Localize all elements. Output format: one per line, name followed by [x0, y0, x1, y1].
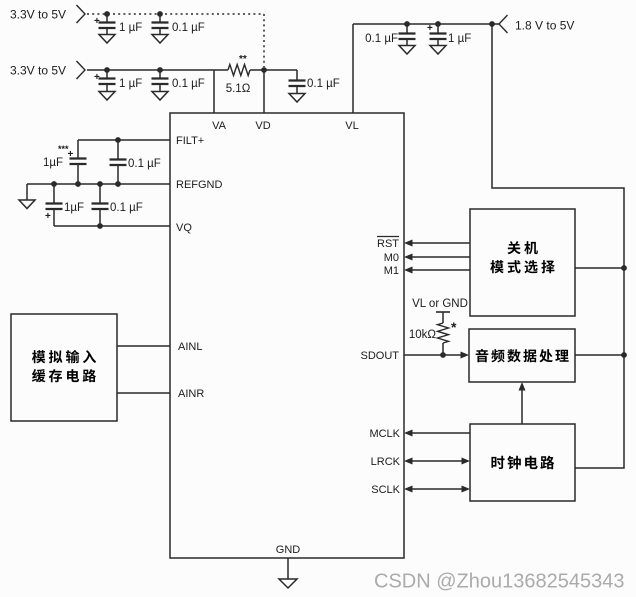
pin label RST (active low, overbar) — [377, 237, 399, 251]
capacitor C11 0.1 uF (VQ) — [92, 184, 109, 226]
pin label REFGND — [176, 179, 223, 191]
svg-text:CSDN @Zhou13682545343: CSDN @Zhou13682545343 — [374, 571, 624, 593]
wire - VD pin stub — [263, 70, 265, 113]
supply label 1.8 V to 5V — [515, 19, 574, 33]
capacitor C8 1 uF (polarized, FILT+) — [68, 140, 87, 184]
svg-text:M0: M0 — [384, 252, 399, 264]
wire - RST control line with arrow into IC — [404, 240, 470, 247]
svg-text:LRCK: LRCK — [371, 456, 401, 468]
wire - shutdown box to rail — [575, 267, 624, 269]
svg-text:VL or GND: VL or GND — [412, 298, 468, 310]
wire - VA pin stub — [213, 70, 215, 113]
svg-text:1.8 V to 5V: 1.8 V to 5V — [515, 19, 574, 33]
svg-text:AINL: AINL — [178, 341, 202, 353]
value label 0.1 uF (C6) — [365, 33, 398, 45]
wire - SCLK line, double arrows — [404, 486, 470, 493]
pin label LRCK — [371, 456, 401, 468]
pin label MCLK — [369, 428, 400, 440]
wire - AINR line — [117, 392, 170, 394]
ground - below C1 — [99, 35, 115, 44]
off-page connector chevron (top rail) — [77, 5, 86, 23]
svg-text:1µF: 1µF — [64, 202, 84, 214]
pin label VQ — [176, 222, 192, 234]
pin label VA — [212, 120, 227, 132]
junction - VD node — [261, 67, 267, 73]
capacitor C10 1 uF (polarized, VQ) — [45, 184, 63, 226]
capacitor C2 0.1 uF (top rail) — [152, 14, 169, 34]
svg-text:*: * — [451, 319, 457, 335]
pin label AINL — [178, 341, 202, 353]
svg-text:**: ** — [239, 54, 247, 65]
wire - clock box to audio box with up arrow — [519, 382, 526, 424]
pin label AINR — [178, 388, 204, 400]
pin label M0 — [384, 252, 399, 264]
value label 1 uF (C7) — [448, 33, 471, 45]
supply label 3.3V to 5V (VA rail) — [10, 64, 66, 78]
pin label SCLK — [371, 484, 400, 496]
off-page connector chevron (VA rail) — [77, 61, 86, 79]
svg-text:***: *** — [58, 144, 69, 154]
wire - VL pin to 1.8V rail — [353, 24, 499, 113]
capacitor C1 1 uF (polarized, top rail) — [94, 14, 116, 34]
block - audio data processing box — [469, 329, 575, 382]
svg-text:0.1 µF: 0.1 µF — [172, 22, 205, 34]
watermark CSDN — [374, 571, 624, 593]
value label 0.1 uF (C11) — [110, 202, 143, 214]
junction - VL rail / C7 — [435, 21, 441, 27]
ground - below C2 — [152, 35, 168, 44]
junction - VL rail / right rail drop — [489, 21, 495, 27]
wire - MCLK line with arrow into IC — [404, 430, 470, 437]
ground - below C6 — [399, 46, 415, 55]
junction - dotted rail / C1 — [104, 11, 110, 17]
pin label VD — [255, 120, 270, 132]
block label: analog input buffer (Chinese) — [32, 350, 96, 382]
block - shutdown mode select box — [470, 209, 575, 316]
pin label SDOUT — [361, 350, 400, 362]
svg-text:10kΩ: 10kΩ — [409, 329, 437, 341]
wire - R1 to VD node to C5 — [250, 69, 297, 71]
junction - rail / shutdown box — [621, 265, 627, 271]
svg-text:VQ: VQ — [176, 222, 192, 234]
ground - REFGND — [19, 184, 35, 209]
block - analog input buffer box — [11, 314, 117, 421]
svg-text:0.1 µF: 0.1 µF — [307, 78, 340, 90]
wire - REFGND line — [27, 183, 170, 185]
resistor R2 10k ohm (pull-up on SDOUT) — [438, 323, 449, 343]
value label 1 uF (C10) — [64, 202, 84, 214]
block - clock circuit box — [470, 424, 575, 501]
junction - dotted rail / C2 — [157, 11, 163, 17]
svg-text:AINR: AINR — [178, 388, 204, 400]
block label: audio data processing (Chinese) — [476, 349, 569, 362]
resistor R1 5.1 ohm — [228, 65, 250, 76]
wire - GND pin stub — [287, 558, 289, 579]
junction - VA rail / C4 — [157, 67, 163, 73]
capacitor C4 0.1 uF (VA rail) — [152, 70, 169, 91]
net label VL or GND (pull-up terminal) — [412, 298, 468, 310]
svg-text:3.3V to 5V: 3.3V to 5V — [10, 8, 66, 22]
ground - below C7 — [430, 46, 446, 55]
wire - VQ line — [54, 225, 170, 227]
junction - VQ / C11 — [97, 223, 103, 229]
svg-text:MCLK: MCLK — [369, 428, 400, 440]
note marker *** (C8) — [58, 144, 69, 154]
terminal bar - VL or GND — [436, 312, 450, 323]
svg-text:VA: VA — [212, 120, 227, 132]
svg-text:GND: GND — [276, 544, 301, 556]
svg-text:RST: RST — [377, 238, 399, 250]
pin label VL — [345, 120, 358, 132]
value label 1 uF (C1) — [119, 22, 142, 34]
wire - M1 control line with arrow into IC — [404, 267, 470, 274]
svg-text:0.1 µF: 0.1 µF — [128, 158, 161, 170]
capacitor C5 0.1 uF (VD rail) — [289, 70, 306, 93]
svg-text:SDOUT: SDOUT — [361, 350, 400, 362]
svg-text:1µF: 1µF — [43, 157, 63, 169]
svg-text:3.3V to 5V: 3.3V to 5V — [10, 64, 66, 78]
junction - rail / audio box — [621, 352, 627, 358]
capacitor C9 0.1 uF (FILT+) — [110, 140, 127, 184]
wire - FILT+ line — [78, 139, 170, 141]
value label 1 uF (C8) — [43, 157, 63, 169]
wire - audio box to rail — [575, 354, 624, 356]
value label 0.1 uF (C5) — [307, 78, 340, 90]
wire - AINL line — [117, 345, 170, 347]
junction - REFGND / C10 — [51, 181, 57, 187]
junction - REFGND / C8 — [75, 181, 81, 187]
junction - SDOUT / R2 — [440, 352, 446, 358]
svg-text:0.1 µF: 0.1 µF — [172, 78, 205, 90]
junction - VA rail / C3 — [104, 67, 110, 73]
svg-text:FILT+: FILT+ — [176, 135, 204, 147]
value label 0.1 uF (C9) — [128, 158, 161, 170]
svg-text:+: + — [45, 211, 51, 222]
ground - below C5 — [289, 94, 305, 103]
wire - dotted rail from connector to VD node — [87, 14, 264, 67]
wire - R2 to SDOUT line — [442, 343, 444, 355]
svg-text:0.1 µF: 0.1 µF — [110, 202, 143, 214]
value label 0.1 uF (C2) — [172, 22, 205, 34]
svg-text:VD: VD — [255, 120, 270, 132]
wire - SDOUT to audio processor with arrow — [404, 352, 469, 359]
svg-text:+: + — [94, 72, 100, 83]
pin label FILT+ — [176, 135, 204, 147]
value label 5.1 ohm (R1) — [226, 83, 251, 95]
svg-text:1 µF: 1 µF — [448, 33, 471, 45]
capacitor C6 0.1 uF (VL rail) — [399, 24, 416, 45]
junction - FILT+ / C9 — [115, 137, 121, 143]
svg-text:1 µF: 1 µF — [119, 78, 142, 90]
junction - VL rail / C6 — [404, 21, 410, 27]
ground - main GND — [279, 579, 297, 588]
ground - below C3 — [99, 92, 115, 101]
wire - M0 control line with arrow into IC — [404, 254, 470, 261]
off-page connector chevron (1.8V rail) — [499, 15, 508, 33]
supply label 3.3V to 5V (top dotted rail) — [10, 8, 66, 22]
svg-text:SCLK: SCLK — [371, 484, 400, 496]
wire - LRCK line, double arrows — [404, 458, 470, 465]
value label 1 uF (C3) — [119, 78, 142, 90]
junction - REFGND / C9 — [115, 181, 121, 187]
block label: shutdown mode select (Chinese) — [490, 241, 555, 273]
pin label GND — [276, 544, 301, 556]
svg-text:0.1 µF: 0.1 µF — [365, 33, 398, 45]
IC U1 main block outline — [170, 113, 404, 558]
junction - REFGND / C11 — [97, 181, 103, 187]
pin label M1 — [384, 265, 399, 277]
svg-text:5.1Ω: 5.1Ω — [226, 83, 251, 95]
value label 0.1 uF (C4) — [172, 78, 205, 90]
note marker * (R2) — [451, 319, 457, 335]
svg-text:VL: VL — [345, 120, 358, 132]
svg-text:M1: M1 — [384, 265, 399, 277]
ground - below C4 — [152, 92, 168, 101]
svg-text:+: + — [94, 16, 100, 27]
block label: clock circuit (Chinese) — [491, 456, 554, 470]
capacitor C3 1 uF (polarized, VA rail) — [94, 70, 116, 91]
wire - right control rail — [492, 24, 624, 468]
svg-text:REFGND: REFGND — [176, 179, 223, 191]
value label 10k ohm (R2) — [409, 329, 437, 341]
svg-text:+: + — [427, 23, 433, 34]
svg-text:1 µF: 1 µF — [119, 22, 142, 34]
note marker ** (R1) — [239, 54, 247, 65]
capacitor C7 1 uF (polarized, VL rail) — [427, 23, 447, 45]
wire - VA supply rail — [87, 69, 228, 71]
